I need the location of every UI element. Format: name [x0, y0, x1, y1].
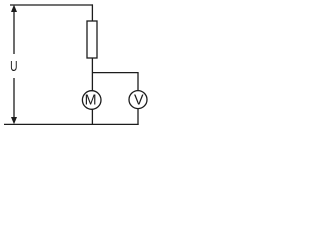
svg-text:U: U	[10, 59, 17, 75]
svg-text:M: M	[85, 93, 97, 109]
motor M	[82, 91, 101, 110]
wire motor bottom lead	[91, 109, 93, 125]
wire top rail	[10, 4, 93, 6]
voltage arrow U upper segment with arrowhead	[11, 5, 17, 54]
wire resistor bottom lead to node	[91, 58, 93, 91]
wire middle horizontal to voltmeter branch	[92, 72, 138, 74]
voltmeter V	[129, 91, 147, 109]
voltage arrow U lower segment with arrowhead	[11, 78, 17, 124]
wire voltmeter top lead	[137, 73, 139, 91]
wire right branch down to resistor	[91, 4, 93, 21]
wire voltmeter bottom lead	[137, 109, 139, 125]
resistor R1	[87, 21, 97, 58]
svg-text:V: V	[134, 93, 144, 109]
wire bottom rail	[4, 123, 139, 125]
